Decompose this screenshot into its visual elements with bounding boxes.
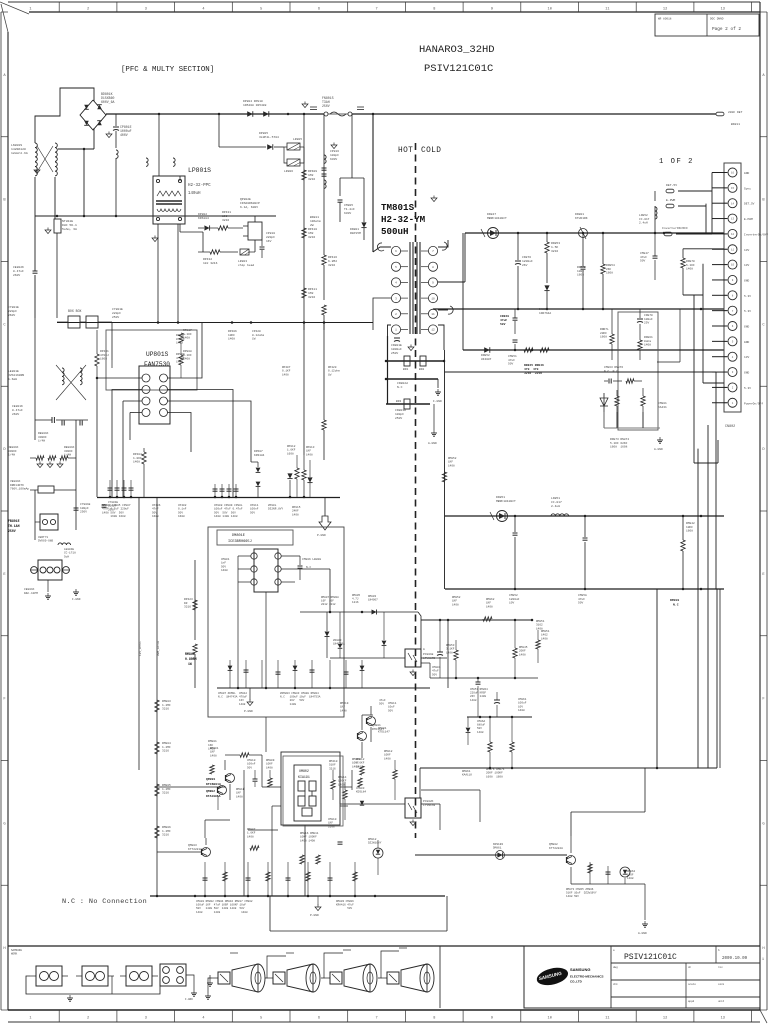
capacitor CN801E bbox=[394, 338, 400, 341]
label DN852 bbox=[481, 354, 492, 361]
svg-text:BD2: BD2 bbox=[419, 368, 424, 371]
svg-text:CP402: CP402 bbox=[178, 504, 187, 507]
svg-text:LR803: LR803 bbox=[238, 260, 247, 263]
svg-text:1 OF 2: 1 OF 2 bbox=[659, 158, 694, 166]
resistor ladder RM803-RM806 bbox=[155, 700, 159, 838]
svg-text:10: 10 bbox=[431, 297, 435, 300]
feedback network box bbox=[618, 312, 658, 430]
label TM801S bbox=[381, 202, 426, 237]
label RM815 col bbox=[384, 750, 393, 760]
svg-text:RP411: RP411 bbox=[308, 288, 317, 291]
zener ZP801 bbox=[287, 473, 292, 497]
svg-text:12: 12 bbox=[431, 329, 435, 332]
label PC801E bbox=[423, 648, 435, 660]
svg-text:10KF: 10KF bbox=[384, 754, 391, 757]
svg-text:RGP15M: RGP15M bbox=[350, 232, 361, 235]
svg-text:RM809: RM809 bbox=[266, 759, 275, 762]
wire feedback right vert bbox=[657, 309, 680, 362]
wire LP801S main out bbox=[158, 176, 180, 260]
capacitor row CP405-CP402 bbox=[108, 480, 134, 497]
svg-text:RN845 RN846: RN845 RN846 bbox=[524, 364, 544, 367]
svg-text:5.3V: 5.3V bbox=[744, 310, 751, 313]
ground mark I-GND mid bbox=[433, 389, 442, 403]
svg-text:DET_5V: DET_5V bbox=[744, 203, 755, 206]
resistor RM853 bbox=[454, 640, 458, 678]
wire vert to bottom block bbox=[700, 589, 702, 630]
diode DP804 bbox=[247, 111, 253, 117]
svg-text:1/4W: 1/4W bbox=[8, 453, 15, 457]
resistor RP401 bbox=[95, 330, 99, 378]
label DN851 bbox=[496, 496, 516, 503]
svg-text:1M2: 1M2 bbox=[308, 174, 314, 177]
wire aux bus bbox=[57, 321, 373, 324]
label QM801 bbox=[206, 777, 221, 786]
svg-text:LTV817B: LTV817B bbox=[423, 657, 435, 660]
svg-text:1.2MF: 1.2MF bbox=[162, 746, 171, 749]
label CP420 bbox=[252, 330, 264, 341]
svg-text:1462: 1462 bbox=[541, 634, 548, 637]
svg-text:CN803d: CN803d bbox=[395, 408, 406, 412]
label QM804 right bbox=[372, 724, 384, 731]
diode DP607 bbox=[251, 462, 260, 497]
line filter LE801E bbox=[35, 318, 112, 440]
mech drawing transformer 3 bbox=[120, 966, 158, 986]
label RM803 bbox=[162, 700, 171, 711]
capacitor CY802E bbox=[112, 308, 123, 360]
label RM852b2 bbox=[452, 596, 461, 606]
svg-text:1M2: 1M2 bbox=[308, 292, 314, 295]
label DP607 bbox=[254, 450, 265, 457]
svg-text:1408: 1408 bbox=[176, 342, 183, 345]
wire rail3 left vert bbox=[462, 233, 464, 350]
label RN861 bbox=[644, 336, 653, 347]
svg-text:1.6KF: 1.6KF bbox=[287, 449, 296, 452]
svg-text:RE801K: RE801K bbox=[38, 432, 49, 435]
svg-text:RM81B: RM81B bbox=[236, 788, 245, 791]
resistor RP423 bbox=[193, 600, 197, 610]
svg-text:250V: 250V bbox=[80, 511, 87, 514]
resistor RP432 bbox=[198, 250, 238, 254]
ferrite bead LR803 bbox=[240, 249, 255, 255]
label LR803 bbox=[238, 260, 254, 267]
svg-text:InverterON/OFF: InverterON/OFF bbox=[662, 226, 688, 230]
svg-text:COLD: COLD bbox=[421, 147, 441, 155]
mech drawing transformer 4 bbox=[160, 964, 194, 998]
svg-text:H: H bbox=[3, 947, 5, 951]
svg-text:dwg: dwg bbox=[613, 965, 618, 969]
svg-text:25V: 25V bbox=[644, 322, 649, 325]
label RP808 bbox=[183, 350, 192, 361]
svg-text:100KF: 100KF bbox=[338, 780, 347, 783]
svg-text:TH.1AH: TH.1AH bbox=[8, 524, 20, 528]
svg-text:13V_LPVCC: 13V_LPVCC bbox=[139, 641, 142, 656]
label RM812b bbox=[356, 758, 365, 787]
svg-text:11: 11 bbox=[731, 248, 735, 251]
wire vertical RP409 chain bbox=[303, 114, 305, 330]
svg-text:1608 1608: 1608 1608 bbox=[610, 446, 628, 449]
svg-text:H2-32-PPC: H2-32-PPC bbox=[188, 184, 211, 188]
label RM876 RM871 bbox=[486, 768, 505, 778]
svg-text:ICE3BR0665J: ICE3BR0665J bbox=[228, 540, 252, 544]
svg-text:1408: 1408 bbox=[247, 835, 254, 838]
transistor QM804 right bbox=[358, 715, 367, 758]
svg-text:50V: 50V bbox=[178, 511, 183, 514]
svg-text:0.47uF: 0.47uF bbox=[12, 409, 23, 412]
capacitor CM86A bbox=[494, 692, 500, 717]
optocoupler PC801E bbox=[330, 649, 447, 667]
diode DN801 sec bbox=[579, 227, 588, 239]
svg-text:RM862: RM862 bbox=[486, 598, 495, 601]
svg-text:KTA1905A: KTA1905A bbox=[206, 795, 221, 798]
svg-text:13: 13 bbox=[721, 7, 725, 11]
label QM803 bbox=[175, 844, 202, 853]
svg-text:1.0KF: 1.0KF bbox=[133, 457, 142, 460]
svg-text:1608: 1608 bbox=[178, 515, 185, 518]
label 1 OF 2 bbox=[659, 158, 694, 166]
label RM853 bbox=[446, 644, 455, 654]
wire AC neutral line bbox=[35, 215, 276, 318]
label QM802 bbox=[206, 790, 221, 798]
svg-text:QM803: QM803 bbox=[188, 844, 197, 847]
svg-text:2: 2 bbox=[87, 7, 89, 11]
svg-text:PSIV121C01C: PSIV121C01C bbox=[424, 63, 493, 75]
label RP407 bbox=[282, 366, 291, 376]
label CN870 bbox=[644, 314, 653, 325]
resistor RP410 bbox=[302, 228, 306, 238]
svg-text:RP431: RP431 bbox=[222, 211, 231, 214]
svg-text:RM805: RM805 bbox=[352, 594, 360, 597]
capacitor CM85A bbox=[583, 516, 588, 589]
thick link BD1 BD2 bbox=[385, 356, 446, 366]
mech drawing chain wires bbox=[26, 976, 160, 994]
svg-text:0.1nF: 0.1nF bbox=[178, 508, 187, 511]
capacitor CP801E bbox=[113, 114, 119, 216]
svg-text:3216: 3216 bbox=[162, 792, 169, 795]
svg-text:12: 12 bbox=[663, 1017, 667, 1021]
component row Q862 bbox=[588, 855, 630, 884]
label ZP801 bbox=[268, 504, 301, 516]
svg-text:D&C-11PM: D&C-11PM bbox=[24, 592, 38, 595]
svg-text:47uF: 47uF bbox=[508, 359, 515, 362]
capacitor CM806 bbox=[298, 556, 303, 580]
resistor RP808 bbox=[179, 343, 183, 378]
svg-text:CM85A: CM85A bbox=[578, 594, 587, 597]
label CM801n bbox=[221, 558, 230, 572]
title HANARO3_32HD bbox=[419, 44, 495, 56]
svg-text:CP406: CP406 bbox=[152, 504, 161, 507]
svg-text:QM802: QM802 bbox=[549, 843, 558, 846]
wire RP423 vert bbox=[194, 560, 196, 640]
svg-text:7: 7 bbox=[376, 1017, 378, 1021]
label DP805 bbox=[259, 132, 279, 139]
resistor network RE801K bbox=[8, 432, 75, 457]
svg-text:KDS184: KDS184 bbox=[254, 454, 265, 457]
svg-text:CP816: CP816 bbox=[330, 150, 339, 153]
svg-text:rev: rev bbox=[718, 966, 723, 969]
svg-text:47nF: 47nF bbox=[152, 508, 159, 511]
label RN873 RN874 bbox=[610, 438, 629, 449]
svg-text:CP811: CP811 bbox=[250, 504, 259, 507]
label HOT COLD bbox=[398, 147, 441, 155]
shunt reg CM801 KA431 bbox=[600, 393, 608, 412]
label Q row bbox=[196, 900, 253, 914]
svg-text:DOC DNNO: DOC DNNO bbox=[710, 18, 724, 21]
svg-text:DZ: DZ bbox=[184, 602, 188, 605]
svg-text:P-GND: P-GND bbox=[244, 710, 253, 713]
bridge rectifier BD801K bbox=[80, 100, 106, 130]
svg-text:16: 16 bbox=[731, 172, 735, 175]
component row Q section bbox=[203, 862, 358, 896]
label RP807 bbox=[176, 334, 185, 345]
svg-text:3216: 3216 bbox=[184, 606, 191, 609]
junction dots control bus bbox=[109, 496, 306, 499]
label P-GND standby bbox=[244, 688, 253, 713]
label LN852 bbox=[639, 214, 650, 225]
label RM864b bbox=[627, 870, 635, 880]
svg-text:1608: 1608 bbox=[606, 272, 613, 275]
zener ZD803 bbox=[325, 612, 346, 658]
svg-text:UM802: UM802 bbox=[299, 769, 309, 773]
svg-text:RM814: RM814 bbox=[338, 776, 347, 779]
svg-text:GND: GND bbox=[744, 372, 749, 375]
svg-text:5.1KF: 5.1KF bbox=[686, 264, 695, 267]
svg-text:13: 13 bbox=[721, 1017, 725, 1021]
svg-text:1408: 1408 bbox=[338, 783, 345, 786]
svg-text:3162: 3162 bbox=[536, 624, 543, 627]
wire long vert 1 bbox=[138, 497, 140, 770]
mech drawing cone 3 bbox=[324, 964, 377, 992]
resistor RM862 bbox=[483, 617, 492, 621]
svg-text:14: 14 bbox=[731, 202, 735, 205]
svg-text:10V: 10V bbox=[518, 705, 523, 708]
svg-text:BN811: BN811 bbox=[310, 216, 319, 219]
inductor LE804E bbox=[58, 543, 76, 559]
diode DP802 bbox=[198, 225, 218, 230]
svg-text:50V: 50V bbox=[221, 565, 226, 568]
svg-text:RM852: RM852 bbox=[452, 596, 461, 599]
resistor RM876 bbox=[488, 717, 492, 768]
label RN853 bbox=[551, 242, 560, 253]
capacitor CE801K bbox=[12, 405, 88, 423]
mech ground 2 bbox=[185, 990, 197, 1001]
resistor RP402 bbox=[142, 448, 146, 497]
label RNR72 bbox=[577, 266, 586, 277]
capacitor CP810 bbox=[260, 240, 265, 258]
wire loop left vert bbox=[444, 350, 446, 589]
svg-text:10J: 10J bbox=[222, 215, 228, 218]
capacitor CM805 bbox=[338, 200, 343, 222]
wire to PC802 bbox=[419, 768, 421, 798]
standby section box bbox=[208, 527, 344, 717]
label RP817 bbox=[183, 329, 192, 340]
mech drawing transformer 1 bbox=[30, 966, 68, 986]
svg-text:13: 13 bbox=[731, 218, 735, 221]
mech drawing cone 4 bbox=[381, 964, 434, 992]
label CM804b bbox=[432, 666, 441, 676]
capacitor CP816 bbox=[322, 155, 327, 188]
svg-text:DVK2160RN: DVK2160RN bbox=[8, 374, 24, 377]
label RP410 bbox=[308, 228, 317, 239]
svg-text:RTD1147: RTD1147 bbox=[372, 728, 384, 731]
wire LP to aux bus bbox=[158, 224, 178, 323]
svg-text:1/4W: 1/4W bbox=[38, 439, 45, 443]
label RM842 bbox=[686, 522, 695, 533]
svg-text:1: 1 bbox=[29, 7, 31, 11]
transistor DM801 KTD bbox=[367, 706, 376, 742]
varistor VE801K bbox=[10, 440, 76, 493]
svg-text:RP416: RP416 bbox=[328, 256, 337, 259]
label RP813 bbox=[306, 446, 315, 456]
ground plug bbox=[45, 580, 51, 599]
wires UM802 bbox=[157, 755, 352, 830]
svg-text:630V: 630V bbox=[344, 212, 351, 215]
capacitor CY801E lower bbox=[74, 503, 91, 514]
svg-text:I-GND: I-GND bbox=[72, 598, 81, 601]
svg-text:8: 8 bbox=[433, 1017, 435, 1021]
svg-text:RNR7L: RNR7L bbox=[600, 328, 609, 331]
label LE801E bbox=[8, 370, 24, 381]
svg-text:4.1KF: 4.1KF bbox=[176, 357, 185, 360]
svg-text:FAN7530: FAN7530 bbox=[144, 361, 170, 368]
label standby row bbox=[218, 692, 247, 706]
svg-text:26V: 26V bbox=[522, 264, 528, 267]
label RM801q2 bbox=[210, 747, 219, 774]
svg-text:CERT?1: CERT?1 bbox=[38, 536, 48, 539]
label CM803d bbox=[356, 787, 366, 805]
strip logo text bbox=[11, 949, 22, 956]
label UP801S bbox=[144, 351, 170, 368]
transformer aux tap lead bbox=[373, 298, 391, 330]
svg-text:1W: 1W bbox=[252, 338, 256, 341]
svg-text:KDS1R4: KDS1R4 bbox=[493, 843, 503, 846]
diode DM86x bbox=[496, 851, 505, 860]
svg-text:RP410: RP410 bbox=[308, 228, 317, 231]
svg-text:KTU61RK: KTU61RK bbox=[575, 217, 588, 220]
resistor RM852 upper bbox=[442, 457, 456, 482]
svg-text:8: 8 bbox=[433, 7, 435, 11]
label CM847 bbox=[640, 252, 649, 263]
svg-text:LE801E: LE801E bbox=[8, 370, 19, 373]
component row standby bbox=[228, 660, 365, 688]
svg-text:CE801K: CE801K bbox=[12, 405, 23, 408]
ground mark CP801E bbox=[106, 132, 112, 138]
wire sub rail 1 bbox=[421, 619, 533, 622]
resistor RP431 bbox=[218, 226, 243, 230]
label RN819 bbox=[340, 702, 349, 712]
connector CN802 body bbox=[724, 163, 741, 412]
svg-text:CM852: CM852 bbox=[509, 594, 518, 597]
svg-text:1408: 1408 bbox=[266, 766, 273, 769]
transformer sec lead pin10 bbox=[438, 306, 453, 314]
svg-text:RP409: RP409 bbox=[308, 170, 317, 173]
svg-text:CN876: CN876 bbox=[522, 256, 531, 259]
svg-text:3.1KF: 3.1KF bbox=[446, 648, 455, 651]
connector CN802 pin labels bbox=[744, 172, 768, 405]
ac plug CE801K bbox=[30, 540, 70, 580]
svg-text:RM842: RM842 bbox=[686, 522, 695, 525]
svg-text:1408 50V 50V: 1408 50V 50V bbox=[102, 511, 124, 514]
mech drawing cone 2 bbox=[267, 964, 320, 992]
capacitor CN849 sym bbox=[513, 309, 518, 334]
svg-text:100pF: 100pF bbox=[108, 505, 117, 508]
svg-text:QM801: QM801 bbox=[372, 724, 381, 727]
svg-text:LR805: LR805 bbox=[293, 138, 302, 141]
svg-text:3: 3 bbox=[145, 1017, 147, 1021]
label RN811 bbox=[310, 216, 321, 227]
svg-text:250V: 250V bbox=[8, 529, 16, 533]
svg-text:10: 10 bbox=[548, 1017, 552, 1021]
svg-text:RP423: RP423 bbox=[184, 598, 193, 601]
svg-text:0.12ohm: 0.12ohm bbox=[252, 333, 264, 337]
label RP432 bbox=[203, 258, 218, 265]
optocoupler PC802K bbox=[405, 798, 421, 818]
svg-text:GND: GND bbox=[744, 279, 749, 282]
svg-text:CM810: CM810 bbox=[247, 759, 256, 762]
svg-text:CM803: CM803 bbox=[356, 787, 365, 790]
svg-text:330KF: 330KF bbox=[38, 436, 47, 439]
svg-text:1608 1608: 1608 1608 bbox=[486, 775, 503, 778]
svg-text:RN873 RN874: RN873 RN874 bbox=[610, 438, 629, 441]
label CP801E bbox=[120, 125, 132, 137]
diode DN847 bbox=[481, 228, 499, 239]
svg-text:ZD803: ZD803 bbox=[333, 639, 342, 642]
svg-text:1N5408 1N5408: 1N5408 1N5408 bbox=[243, 104, 267, 107]
resistor RM851s bbox=[536, 630, 540, 663]
title block verticals bbox=[611, 946, 716, 1008]
label CM805 bbox=[344, 204, 355, 215]
resistor RP413 bbox=[302, 455, 306, 497]
label RP431 bbox=[222, 211, 231, 222]
svg-text:10: 10 bbox=[731, 264, 735, 267]
svg-text:1KF: 1KF bbox=[210, 751, 215, 754]
subcircuit box Q section bbox=[270, 728, 470, 848]
svg-text:10KF: 10KF bbox=[686, 526, 693, 529]
capacitor DM804 bbox=[382, 612, 387, 658]
svg-text:16V: 16V bbox=[218, 699, 244, 702]
label DP804 DP810 bbox=[243, 100, 267, 107]
svg-text:CE802K: CE802K bbox=[13, 266, 24, 269]
svg-text:RM805: RM805 bbox=[162, 784, 171, 787]
svg-text:3216: 3216 bbox=[328, 264, 335, 267]
wire long vert 2 bbox=[156, 497, 158, 896]
svg-text:500uH: 500uH bbox=[381, 226, 409, 237]
svg-text:RM806: RM806 bbox=[162, 826, 171, 829]
diode DM803 sym bbox=[361, 610, 377, 615]
svg-text:DRR14D7K: DRR14D7K bbox=[10, 484, 24, 487]
svg-text:DM812: DM812 bbox=[368, 838, 377, 841]
svg-text:1216: 1216 bbox=[352, 601, 359, 604]
svg-text:RN854: RN854 bbox=[606, 264, 615, 267]
label LR805 LR806 bbox=[284, 138, 302, 173]
label cap row 2 bbox=[152, 504, 161, 518]
svg-text:1408: 1408 bbox=[448, 464, 455, 467]
svg-text:1408: 1408 bbox=[236, 795, 243, 798]
svg-text:50V 1408 50V 1408 1408 50V: 50V 1408 50V 1408 1408 50V bbox=[196, 907, 245, 910]
svg-text:CC-017: CC-017 bbox=[639, 218, 650, 221]
capacitor CY801E upper bbox=[8, 250, 57, 318]
svg-text:1408 1408 1408: 1408 1408 1408 bbox=[214, 515, 238, 518]
ic UP801S DIP8 bbox=[134, 366, 175, 424]
svg-text:3L0P4L-5704: 3L0P4L-5704 bbox=[259, 136, 279, 139]
fuse label TH1AH bbox=[8, 519, 20, 533]
svg-text:RP807: RP807 bbox=[176, 334, 185, 337]
wire secondary rail3 bbox=[463, 349, 724, 352]
label RP409 bbox=[308, 170, 317, 181]
svg-text:100nF: 100nF bbox=[250, 508, 259, 511]
diode DN852 bbox=[484, 347, 490, 353]
svg-text:1408: 1408 bbox=[541, 637, 548, 640]
svg-text:2009.10.09: 2009.10.09 bbox=[722, 957, 748, 961]
